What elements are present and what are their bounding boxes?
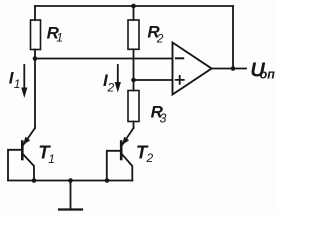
junction dot ground on rail — [68, 178, 73, 183]
op-amp plus sign — [176, 76, 184, 84]
wire node B to R3 — [133, 80, 135, 91]
transistor T2 collector lead — [122, 155, 132, 181]
transistor T2 base lead — [107, 151, 121, 181]
transistor T2 emitter arrowhead — [122, 137, 129, 145]
transistor T2 base bar — [120, 142, 123, 160]
label I1 — [9, 68, 21, 91]
resistor R3 — [128, 91, 139, 122]
wire R1 top lead — [34, 6, 36, 20]
svg-text:1: 1 — [56, 31, 63, 45]
svg-text:3: 3 — [160, 111, 167, 125]
resistor R1 — [31, 20, 41, 50]
junction dot T2 base loop on rail — [105, 178, 110, 183]
transistor T1 base bar — [21, 142, 24, 160]
svg-text:2: 2 — [107, 81, 115, 95]
wire R3 bottom lead to T2 — [133, 122, 135, 129]
label R2 — [147, 23, 163, 46]
op-amp U1 triangle — [173, 43, 212, 95]
wire top rail — [35, 5, 233, 7]
svg-text:1: 1 — [14, 77, 21, 91]
wire node B to op-amp non-inverting input — [134, 79, 173, 81]
current arrow I2 — [115, 65, 121, 93]
svg-text:оп: оп — [260, 68, 276, 82]
label I2 — [103, 71, 115, 95]
wire node A to op-amp inverting input — [35, 58, 173, 60]
svg-text:2: 2 — [146, 151, 154, 165]
transistor T1 base lead — [8, 150, 22, 181]
wire R2 bottom lead to node B (crosses node-A wire, no dot) — [133, 49, 135, 80]
label R1 — [47, 23, 63, 44]
label R3 — [151, 102, 167, 125]
transistor T1 emitter diagonal — [23, 128, 35, 145]
ground bar — [59, 208, 82, 210]
label T1 — [38, 142, 55, 166]
node A junction dot — [33, 56, 38, 61]
wire feedback to top rail — [232, 6, 234, 69]
transistor T1 collector lead — [23, 155, 34, 181]
label T2 — [136, 142, 154, 166]
op-amp minus sign — [176, 57, 183, 59]
wire bottom rail — [8, 180, 132, 182]
wire R2 top lead — [133, 6, 135, 20]
svg-text:1: 1 — [48, 152, 55, 166]
wire op-amp output — [212, 68, 246, 70]
junction dot T1 collector on rail — [32, 178, 37, 183]
transistor T2 emitter diagonal — [122, 128, 133, 145]
label Uop output voltage — [250, 59, 275, 81]
junction dot top rail / R2 — [131, 4, 136, 9]
transistor T1 emitter arrowhead — [23, 137, 30, 145]
node B junction dot — [131, 78, 136, 83]
current arrow I1 — [21, 65, 27, 98]
resistor R2 — [128, 20, 139, 49]
junction dot output / feedback — [231, 66, 236, 71]
svg-text:2: 2 — [156, 31, 164, 45]
wire node A down to T1 emitter — [34, 59, 36, 129]
wire R1 bottom lead — [34, 50, 36, 59]
ground stem — [70, 181, 72, 210]
